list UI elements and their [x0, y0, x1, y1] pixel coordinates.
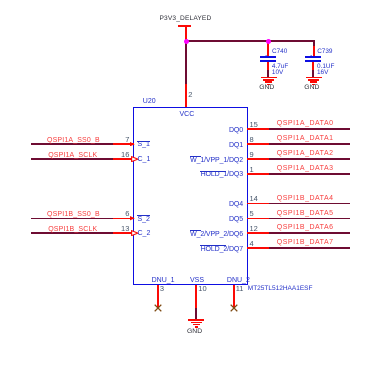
wire net QSPI1A_SCLK: [31, 158, 113, 160]
wire rail to C739: [313, 41, 315, 46]
pin DNU_1 pin 3: [152, 277, 175, 284]
pin S_2 pin 6: [113, 218, 135, 220]
no-connect X on pin 11: [230, 304, 238, 312]
pin DQ4 number 14: [247, 203, 269, 205]
pin S_1 pin 7: [113, 143, 135, 145]
no-connect X on pin 3: [154, 304, 162, 312]
wire net QSPI1A_DATA0: [269, 128, 350, 130]
pin DNU_2 pin 11: [227, 277, 250, 284]
pin 2 number: [188, 91, 192, 99]
pin HOLD_2/DQ7 number 4: [247, 247, 269, 249]
ground under C739: [306, 77, 322, 79]
ground under C740: [261, 77, 277, 79]
pin C_1 pin 16: [113, 158, 135, 160]
capacitor C739: [305, 56, 320, 58]
capacitor C740: [260, 56, 275, 58]
node junction at VCC pin branch: [184, 39, 189, 44]
ground under VSS: [188, 319, 204, 321]
pin W_1/VPP_1/DQ2 number 9: [247, 158, 269, 160]
part value MT25TL512HAA1ESF: [248, 286, 313, 293]
wire net QSPI1A_SS0_B: [31, 143, 113, 145]
wire net QSPI1A_DATA2: [269, 158, 350, 160]
wire VCC rail: [185, 40, 314, 42]
pin W_2/VPP_2/DQ6 number 12: [247, 232, 269, 234]
wire from rail to U20 VCC pin 2: [185, 41, 187, 84]
node junction at C740 branch: [266, 39, 271, 44]
pin VSS pin 10: [190, 277, 204, 284]
pin DQ5 number 5: [247, 218, 269, 220]
wire net QSPI1A_DATA1: [269, 143, 350, 145]
pin DQ0 number 15: [247, 128, 269, 130]
wire net QSPI1B_SCLK: [31, 232, 113, 234]
wire C739 to ground: [312, 62, 314, 70]
wire net QSPI1B_SS0_B: [31, 218, 113, 220]
wire rail to C740: [267, 41, 269, 57]
pin DQ1 number 8: [247, 143, 269, 145]
wire net QSPI1B_DATA6: [269, 232, 350, 234]
wire net QSPI1B_DATA4: [269, 203, 350, 205]
power net P3V3_DELAYED: [160, 16, 212, 23]
wire VSS to ground: [195, 308, 197, 319]
pin VCC name: [180, 111, 195, 118]
wire net QSPI1B_DATA5: [269, 218, 350, 220]
pin C_2 pin 13: [113, 232, 135, 234]
op-amp U20 IC body: [133, 107, 248, 286]
wire net QSPI1A_DATA3: [269, 173, 350, 175]
wire C740 to ground: [267, 62, 269, 70]
wire net QSPI1B_DATA7: [269, 247, 350, 249]
pin HOLD_1/DQ3 number 1: [247, 173, 269, 175]
